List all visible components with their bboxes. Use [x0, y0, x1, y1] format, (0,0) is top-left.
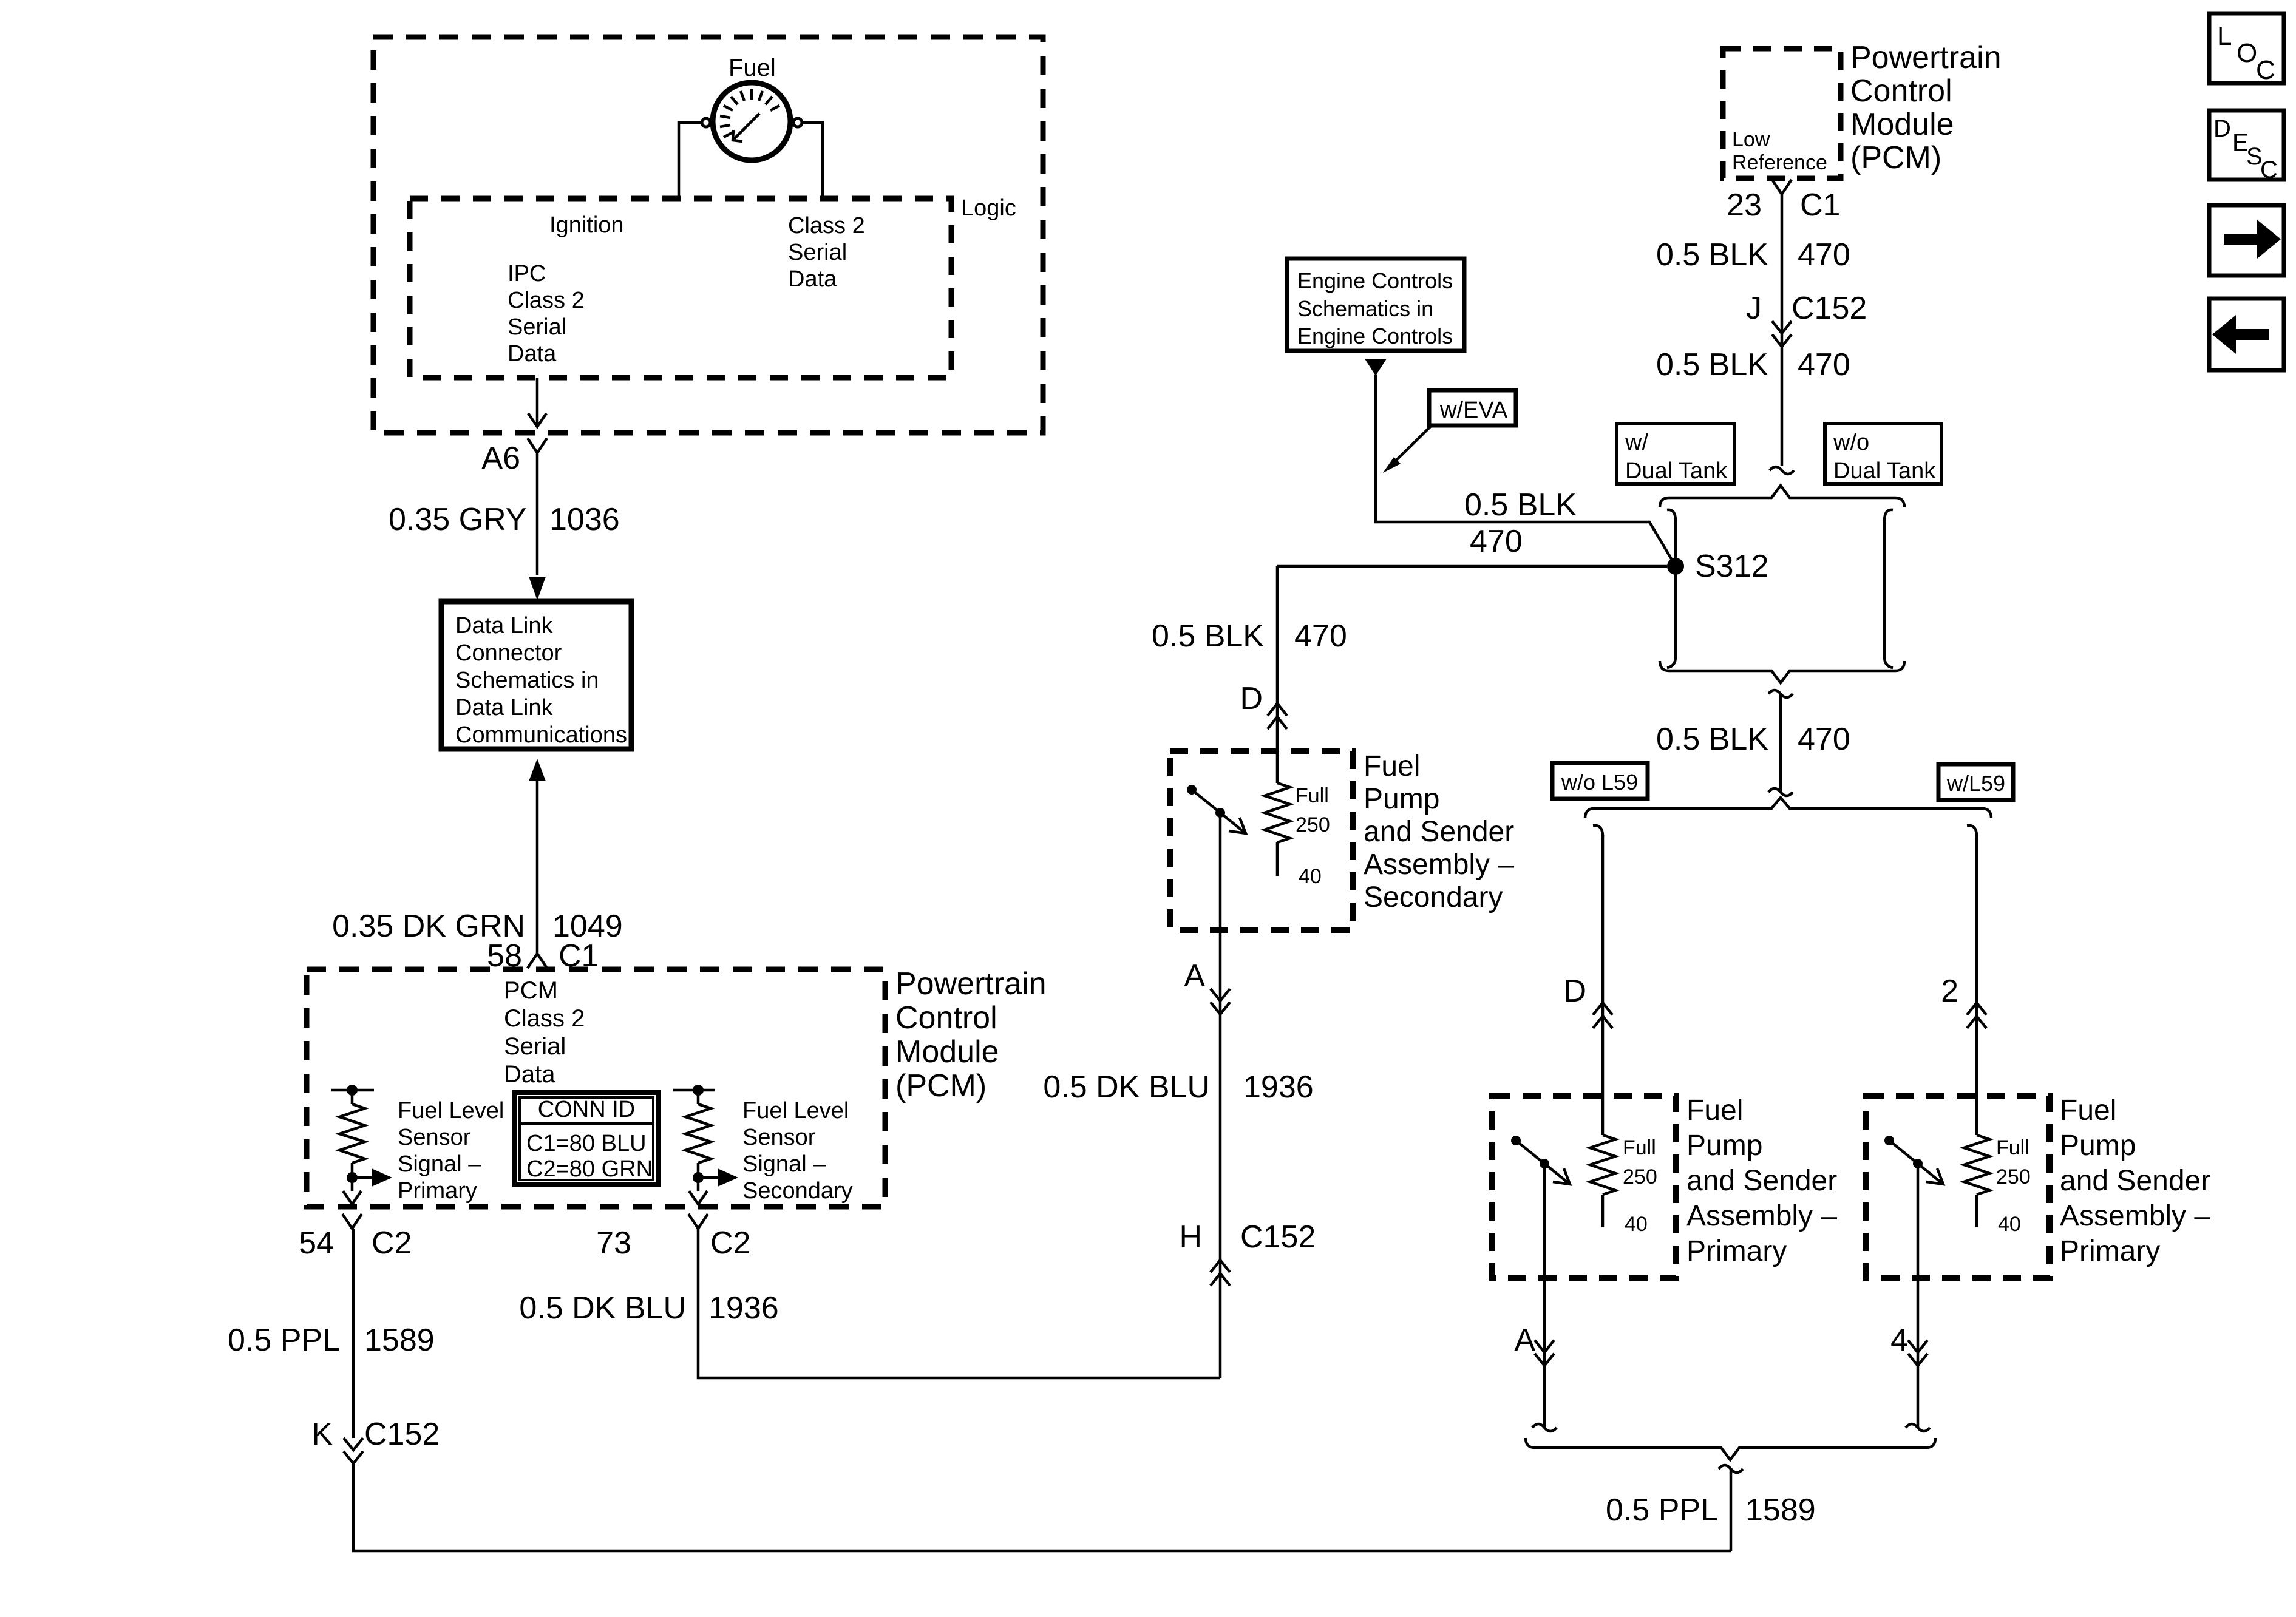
fuel level sender switch (left primary): [1516, 1141, 1570, 1184]
svg-text:C152: C152: [364, 1417, 440, 1452]
w/EVA pointer arrow: [1391, 425, 1432, 465]
wire left option branch (S312 branch): [1674, 520, 1677, 657]
svg-text:470: 470: [1470, 524, 1523, 559]
right option bracket hook top: [1884, 510, 1893, 521]
svg-text:C2: C2: [710, 1225, 750, 1261]
svg-text:Schematics in: Schematics in: [455, 668, 599, 693]
svg-text:D: D: [1563, 974, 1586, 1009]
splice S312: [1667, 558, 1684, 575]
right L59 branch hook: [1967, 825, 1977, 836]
wire 2 branch down to right primary pump: [1975, 835, 1978, 1135]
brace merge primary pump grounds: [1526, 1438, 1935, 1460]
svg-text:Signal –: Signal –: [398, 1151, 481, 1177]
connector 58 C1 into PCM: [528, 954, 547, 968]
svg-text:1036: 1036: [549, 502, 620, 537]
Fuel Pump and Sender Assembly - Primary dashed box (left): [1492, 1096, 1676, 1278]
svg-text:0.5 PPL: 0.5 PPL: [1606, 1493, 1718, 1528]
svg-text:Low: Low: [1732, 128, 1770, 151]
svg-text:H: H: [1179, 1219, 1202, 1255]
svg-text:Data: Data: [508, 341, 557, 367]
svg-text:and Sender: and Sender: [1364, 816, 1514, 848]
svg-text:Secondary: Secondary: [1364, 881, 1503, 914]
wire sender wiper down (left primary): [1543, 1164, 1546, 1428]
fuel level sensor secondary input (top rail with junction): [673, 1089, 715, 1092]
svg-text:1589: 1589: [364, 1323, 435, 1358]
svg-text:Assembly –: Assembly –: [2060, 1200, 2210, 1232]
svg-text:Serial: Serial: [788, 240, 847, 265]
svg-text:A: A: [1184, 958, 1205, 994]
svg-text:C2=80 GRN: C2=80 GRN: [526, 1156, 653, 1182]
svg-text:w/EVA: w/EVA: [1439, 398, 1508, 423]
connector A chevrons (left primary): [1535, 1340, 1554, 1352]
connector 23 C1: [1772, 180, 1792, 194]
svg-text:Dual Tank: Dual Tank: [1833, 458, 1936, 484]
w/o L59 option box: [1552, 763, 1648, 799]
svg-text:Ignition: Ignition: [549, 212, 624, 238]
resistor secondary fuel level sense: [685, 1104, 711, 1163]
svg-text:Fuel: Fuel: [729, 55, 776, 81]
right option bracket hook bottom: [1884, 657, 1893, 668]
svg-text:Module: Module: [895, 1034, 999, 1070]
svg-text:Engine Controls: Engine Controls: [1297, 324, 1453, 348]
svg-text:w/o L59: w/o L59: [1561, 770, 1638, 795]
connector D inline chevrons (left primary): [1593, 1003, 1612, 1015]
svg-text:40: 40: [1998, 1213, 2021, 1236]
wire end hook above dual-tank brace: [1770, 467, 1794, 474]
svg-text:Full: Full: [1623, 1136, 1656, 1159]
svg-text:Dual Tank: Dual Tank: [1625, 458, 1728, 484]
resistor primary fuel level sense: [339, 1104, 365, 1163]
connector A6 (IPC harness connector): [528, 438, 547, 453]
svg-text:Primary: Primary: [1686, 1235, 1787, 1267]
svg-text:S312: S312: [1695, 549, 1768, 584]
Data Link Connector Schematics box: [441, 602, 631, 749]
wire D down into secondary box: [1276, 566, 1279, 783]
wire end hook above L59 brace: [1768, 788, 1793, 796]
left option bracket hook top: [1667, 510, 1676, 521]
svg-text:Data Link: Data Link: [455, 695, 554, 720]
wire sender wiper down (right primary): [1917, 1164, 1920, 1428]
svg-text:Class 2: Class 2: [508, 288, 585, 313]
svg-text:0.5 BLK: 0.5 BLK: [1656, 237, 1768, 273]
fuel level sensor primary input (top rail with junction): [331, 1089, 374, 1092]
wire 0.35 GRY 1036 (A6 to DLC): [536, 450, 539, 575]
wire node to C2 pin 54: [351, 1178, 354, 1191]
svg-text:Assembly –: Assembly –: [1364, 849, 1514, 881]
svg-text:0.5 BLK: 0.5 BLK: [1656, 347, 1768, 382]
back arrow nav icon: [2209, 299, 2284, 370]
svg-text:Data Link: Data Link: [455, 613, 554, 639]
svg-text:Primary: Primary: [398, 1178, 477, 1204]
svg-text:Class 2: Class 2: [788, 213, 865, 239]
resistor secondary sender (Full 250): [1265, 783, 1290, 842]
svg-text:C1=80 BLU: C1=80 BLU: [526, 1131, 647, 1156]
left L59 branch hook: [1593, 825, 1603, 836]
svg-text:Full: Full: [1996, 1136, 2029, 1159]
node secondary signal junction: [693, 1172, 704, 1183]
svg-text:C: C: [2256, 55, 2275, 85]
svg-text:73: 73: [596, 1225, 631, 1261]
connector J C152 inline chevrons: [1772, 321, 1792, 333]
svg-text:Assembly –: Assembly –: [1686, 1200, 1837, 1232]
wire hook left primary to merge brace: [1532, 1424, 1557, 1431]
wire hook right primary to merge brace: [1906, 1424, 1930, 1431]
svg-text:Schematics in: Schematics in: [1297, 296, 1433, 321]
svg-text:1936: 1936: [708, 1290, 779, 1326]
svg-text:250: 250: [1996, 1165, 2031, 1188]
svg-text:K: K: [311, 1417, 333, 1452]
connector K C152 inline chevrons: [344, 1438, 363, 1450]
brace split to L59 branches: [1585, 798, 1991, 818]
fuel level sender switch (secondary): [1192, 790, 1246, 833]
solid arrow below Engine Controls box: [1365, 359, 1387, 376]
svg-text:250: 250: [1296, 813, 1330, 836]
svg-text:250: 250: [1623, 1165, 1657, 1188]
svg-text:Pump: Pump: [2060, 1130, 2136, 1162]
resistor right primary sender (Full 250): [1964, 1135, 1989, 1195]
wire D branch down to left primary pump: [1601, 835, 1605, 1135]
Powertrain Control Module (PCM) dashed box (top right): [1723, 49, 1841, 178]
svg-text:O: O: [2237, 38, 2257, 68]
wire H C152 up to secondary pump A: [1219, 1001, 1222, 1378]
open arrow at PCM box edge (73): [689, 1191, 707, 1204]
wire resistor to node: [351, 1163, 354, 1178]
svg-text:J: J: [1746, 291, 1762, 326]
Engine Controls Schematics box: [1287, 259, 1464, 351]
wire gauge right pin to Class 2 input: [802, 123, 823, 198]
svg-text:w/: w/: [1625, 430, 1648, 455]
wire resistor open end 40 (secondary): [1276, 842, 1279, 876]
svg-text:Fuel: Fuel: [1686, 1094, 1743, 1127]
svg-text:Logic: Logic: [961, 195, 1016, 221]
wire right option branch: [1883, 520, 1886, 657]
svg-text:0.5 BLK: 0.5 BLK: [1464, 487, 1577, 523]
svg-text:0.5 DK BLU: 0.5 DK BLU: [519, 1290, 686, 1326]
wire into secondary sense resistor: [697, 1090, 700, 1104]
svg-text:Signal –: Signal –: [742, 1151, 826, 1177]
IPC inner Logic dashed box: [410, 198, 951, 378]
wire into primary sense resistor: [351, 1090, 354, 1104]
wire hook below bottom brace: [1719, 1465, 1743, 1473]
solid arrow into Data Link box: [529, 577, 546, 600]
svg-text:Pump: Pump: [1686, 1130, 1762, 1162]
Powertrain Control Module (PCM) dashed box (lower left): [307, 969, 885, 1207]
LOC nav icon: [2209, 13, 2284, 83]
svg-text:Connector: Connector: [455, 640, 562, 666]
open arrow at PCM box edge (54): [343, 1191, 361, 1204]
svg-text:Data: Data: [788, 266, 837, 292]
open arrow at IPC box edge: [528, 413, 546, 427]
brace merge dual tank branches: [1660, 661, 1904, 683]
wire 0.5 DK BLU 1936 (73 down and right): [698, 1229, 1220, 1378]
svg-text:Fuel Level: Fuel Level: [398, 1098, 504, 1124]
connector 54 C2: [342, 1214, 362, 1229]
fuel gauge G1 (IPC fuel gauge symbol): [713, 83, 790, 160]
w/EVA option box: [1429, 390, 1516, 425]
forward arrow nav icon: [2209, 205, 2284, 276]
DESC nav icon: [2209, 110, 2284, 180]
svg-text:Sensor: Sensor: [398, 1125, 471, 1150]
svg-text:C: C: [2260, 157, 2278, 183]
arrow secondary signal (points right): [698, 1176, 718, 1179]
svg-text:D: D: [1240, 681, 1263, 716]
left option bracket hook bottom: [1667, 657, 1676, 668]
svg-text:C152: C152: [1240, 1219, 1316, 1255]
connector 4 chevrons (right primary): [1908, 1340, 1927, 1352]
svg-text:C2: C2: [372, 1225, 412, 1261]
w/ Dual Tank option box: [1617, 424, 1734, 484]
svg-text:Pump: Pump: [1364, 783, 1439, 815]
svg-text:Engine Controls: Engine Controls: [1297, 268, 1453, 293]
svg-text:Serial: Serial: [504, 1033, 566, 1060]
svg-text:Control: Control: [1850, 73, 1952, 109]
gauge right pin: [793, 118, 802, 127]
svg-text:Full: Full: [1296, 784, 1329, 807]
svg-text:Class 2: Class 2: [504, 1005, 585, 1032]
svg-text:0.5 BLK: 0.5 BLK: [1656, 722, 1768, 757]
svg-text:Fuel Level: Fuel Level: [742, 1098, 849, 1124]
svg-text:Serial: Serial: [508, 314, 566, 340]
svg-text:4: 4: [1890, 1323, 1908, 1358]
svg-text:Powertrain: Powertrain: [895, 966, 1047, 1002]
svg-text:23: 23: [1727, 188, 1762, 223]
wire 0.5 PPL 1589 (54 to K C152): [352, 1229, 355, 1438]
Instrument Panel Cluster (IPC) dashed box: [373, 37, 1043, 433]
wire resistor open end 40 (right primary): [1975, 1195, 1978, 1227]
svg-text:Reference: Reference: [1732, 151, 1827, 174]
wire 0.5 BLK 470 (to L59 split): [1779, 694, 1782, 792]
svg-text:2: 2: [1941, 974, 1958, 1009]
wire hook below merge brace: [1768, 690, 1793, 697]
wire node to C2 pin 73: [697, 1178, 700, 1191]
svg-text:470: 470: [1294, 619, 1347, 654]
fuel level sender switch (right primary): [1889, 1141, 1943, 1184]
svg-text:Communications: Communications: [455, 722, 627, 748]
svg-text:40: 40: [1299, 865, 1322, 888]
svg-text:IPC: IPC: [508, 261, 546, 286]
svg-text:and Sender: and Sender: [1686, 1165, 1837, 1197]
wire gauge left pin to Ignition input: [679, 123, 702, 198]
svg-text:470: 470: [1798, 237, 1850, 273]
svg-text:0.5 BLK: 0.5 BLK: [1152, 619, 1264, 654]
svg-text:C1: C1: [1800, 188, 1840, 223]
w/o Dual Tank option box: [1825, 424, 1941, 484]
arrow primary signal (points right): [352, 1176, 372, 1179]
wire 0.35 DK GRN 1049 (PCM 58 to DLC): [536, 781, 539, 955]
svg-text:0.5 DK BLU: 0.5 DK BLU: [1043, 1070, 1210, 1105]
svg-text:Data: Data: [504, 1061, 555, 1088]
connector 73 C2: [688, 1214, 708, 1229]
wire 0.5 PPL 1589 (return to K): [1730, 1469, 1733, 1551]
svg-text:0.35 GRY: 0.35 GRY: [389, 502, 526, 537]
svg-text:54: 54: [299, 1225, 334, 1261]
svg-text:40: 40: [1625, 1213, 1648, 1236]
svg-text:and Sender: and Sender: [2060, 1165, 2210, 1197]
connector D inline chevrons (secondary): [1268, 703, 1287, 716]
svg-text:w/L59: w/L59: [1946, 771, 2005, 796]
wire resistor to node (secondary): [697, 1163, 700, 1178]
svg-text:Secondary: Secondary: [742, 1178, 853, 1204]
connector H C152 inline chevrons: [1211, 1260, 1230, 1272]
Fuel Pump and Sender Assembly - Primary dashed box (right): [1866, 1096, 2050, 1278]
svg-text:Powertrain: Powertrain: [1850, 40, 2002, 75]
wire K to bottom run: [353, 1463, 1731, 1551]
svg-text:Fuel: Fuel: [1364, 750, 1420, 782]
connector A (secondary pump) chevrons: [1211, 989, 1230, 1001]
wire sender wiper to A (secondary): [1219, 813, 1222, 1001]
svg-text:A6: A6: [481, 441, 520, 476]
wire 0.5 BLK 470 (23 to J): [1781, 193, 1784, 466]
svg-text:Module: Module: [1850, 107, 1954, 142]
svg-text:1936: 1936: [1243, 1070, 1314, 1105]
wire S312 to secondary pump branch (left horizontal): [1277, 565, 1667, 568]
svg-text:A: A: [1514, 1323, 1535, 1358]
gauge left pin: [702, 118, 710, 127]
brace split to dual tank branches: [1660, 486, 1904, 507]
node primary signal junction: [347, 1172, 358, 1183]
svg-text:Fuel: Fuel: [2060, 1094, 2116, 1127]
solid arrow up from PCM wire: [529, 759, 546, 781]
svg-text:0.5 PPL: 0.5 PPL: [228, 1323, 340, 1358]
wire Engine Controls to S312: [1376, 375, 1674, 564]
svg-text:L: L: [2217, 21, 2232, 51]
Fuel Pump and Sender Assembly - Secondary dashed box: [1170, 751, 1353, 930]
svg-text:Sensor: Sensor: [742, 1125, 816, 1150]
svg-text:w/o: w/o: [1833, 430, 1869, 455]
svg-text:(PCM): (PCM): [1850, 140, 1941, 175]
svg-text:PCM: PCM: [504, 977, 558, 1004]
resistor left primary sender (Full 250): [1590, 1135, 1615, 1195]
svg-text:470: 470: [1798, 722, 1850, 757]
wire IPC serial data output: [536, 378, 539, 424]
svg-text:(PCM): (PCM): [895, 1068, 987, 1103]
CONN ID table box: [515, 1093, 658, 1185]
svg-text:D: D: [2213, 115, 2231, 142]
svg-text:1589: 1589: [1745, 1493, 1816, 1528]
svg-text:470: 470: [1798, 347, 1850, 382]
connector 2 inline chevrons (right primary): [1967, 1003, 1986, 1015]
svg-text:Control: Control: [895, 1000, 997, 1036]
wire resistor open end 40 (left primary): [1601, 1195, 1605, 1227]
svg-text:CONN ID: CONN ID: [538, 1097, 635, 1122]
svg-text:C152: C152: [1792, 291, 1867, 326]
svg-text:Primary: Primary: [2060, 1235, 2160, 1267]
w/L59 option box: [1938, 764, 2013, 800]
